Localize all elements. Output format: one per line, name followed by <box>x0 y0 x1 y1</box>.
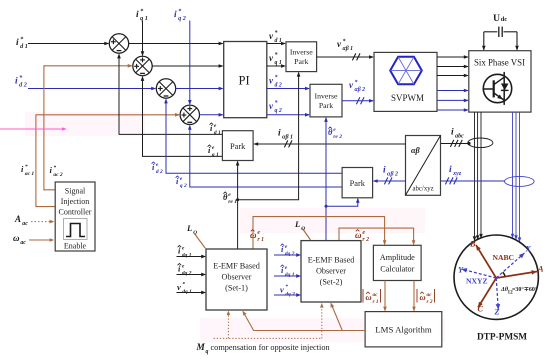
wire SVPWM to VSI phase z <box>437 109 468 111</box>
wire v*q1 PI to InversePark1 <box>267 65 285 67</box>
svg-text:Injection: Injection <box>61 197 89 206</box>
svg-text:Enable: Enable <box>64 241 87 250</box>
svg-text:U: U <box>493 13 500 24</box>
svg-text:Z: Z <box>494 308 500 317</box>
svg-text:Park: Park <box>319 101 333 110</box>
wire amplitude2 to LMS <box>413 281 415 311</box>
wire i*q1 down to S2 <box>142 21 144 56</box>
svg-text:q 2: q 2 <box>178 15 186 22</box>
wire amplitude1 to LMS <box>384 281 386 311</box>
block SVPWM <box>374 52 437 111</box>
wire Udc+ to VSI <box>483 32 485 50</box>
block Park 2 <box>342 168 373 198</box>
svg-text:Inverse: Inverse <box>290 47 313 56</box>
svg-text:i: i <box>16 38 19 48</box>
block Amplitude Calculator <box>373 245 421 280</box>
svg-text:*: * <box>343 38 346 45</box>
svg-text:i: i <box>451 128 454 138</box>
svg-text:d 1: d 1 <box>275 38 282 44</box>
svg-text:L: L <box>186 223 192 233</box>
svg-text:Park: Park <box>230 142 246 151</box>
svg-text:E-EMF Based: E-EMF Based <box>308 256 355 265</box>
label abs omega_ac_r1 <box>362 289 364 303</box>
svg-text:v: v <box>177 282 181 292</box>
wire theta_re1 to Park1 and InversePark1 <box>237 162 239 250</box>
svg-text:M: M <box>196 343 206 353</box>
phase A axis <box>496 272 537 279</box>
svg-text:Amplitude: Amplitude <box>380 253 415 262</box>
wire v*d2 PI to InversePark2 <box>267 88 309 90</box>
block Inverse Park 2 <box>310 84 342 117</box>
wire SVPWM to VSI phase y <box>437 99 468 101</box>
svg-text:q 1: q 1 <box>212 152 219 158</box>
svg-text:E-EMF Based: E-EMF Based <box>213 262 260 271</box>
svg-text:Park: Park <box>350 179 366 188</box>
svg-text:re 1: re 1 <box>228 199 237 205</box>
svg-text:Calculator: Calculator <box>380 265 414 274</box>
DTP-PMSM stator circle <box>454 235 538 319</box>
block E-EMF Based Observer Set-2 <box>301 241 361 302</box>
wire i*ac2 injection to S4 <box>36 115 179 207</box>
svg-text:*: * <box>275 100 278 107</box>
wire v*d1 PI to InversePark1 <box>267 43 285 45</box>
IGBT symbol Q1 inside VSI <box>483 74 511 102</box>
stray magenta wire <box>0 128 66 130</box>
wire SVPWM to VSI phase c <box>437 75 468 77</box>
bus i_xyz three-phase lines <box>512 112 514 237</box>
svg-text:ac: ac <box>373 292 379 298</box>
svg-text:*: * <box>275 52 278 59</box>
observer2 input v_dq2 <box>274 294 300 296</box>
svg-text:Six Phase VSI: Six Phase VSI <box>474 57 525 67</box>
wire i_xyz measurement to ab transform <box>441 180 505 182</box>
wire omega_ac to controller <box>29 239 53 241</box>
observer1 input v_dq1 <box>177 292 206 294</box>
svg-text:dq 1: dq 1 <box>182 253 192 259</box>
DC-link capacitor <box>484 31 498 33</box>
svg-text:PI: PI <box>239 74 250 88</box>
wire theta_re2 to InversePark2 and Park2 <box>325 118 327 241</box>
svg-text:Park: Park <box>294 57 308 66</box>
svg-text:L: L <box>294 219 300 229</box>
svg-text:DTP-PMSM: DTP-PMSM <box>477 333 527 343</box>
square wave icon <box>64 219 88 240</box>
svg-text:Signal: Signal <box>65 187 86 196</box>
wire feedback i^e_q1 from Park1 to S2 <box>143 77 223 156</box>
wire LMS feedback to observers <box>243 312 365 331</box>
observer2 input i_dq1 <box>274 275 300 277</box>
wire i*ac1 injection to S2 <box>44 66 132 190</box>
wire i*d1 to S1 <box>28 43 108 45</box>
svg-text:r 1: r 1 <box>373 299 379 305</box>
wire S1 to PI input 1 <box>129 43 223 45</box>
svg-text:q 2: q 2 <box>275 108 282 114</box>
wire SVPWM to VSI phase x <box>437 90 468 92</box>
block Signal Injection Controller <box>55 182 95 251</box>
summing junction S2 (i*q1) <box>133 56 152 75</box>
svg-text:αβ: αβ <box>411 146 421 155</box>
svg-text:Controller: Controller <box>59 208 92 217</box>
svg-text:B: B <box>469 240 476 249</box>
svg-text:ω: ω <box>13 233 20 243</box>
svg-text:r 2: r 2 <box>362 237 369 243</box>
observer2 input i_dq2 <box>274 254 300 256</box>
svg-text:abc/xyz: abc/xyz <box>413 186 434 193</box>
block Inverse Park 1 <box>286 42 317 72</box>
svg-text:i: i <box>174 10 177 20</box>
svg-text:d 2: d 2 <box>156 169 163 175</box>
svg-text:NXYZ: NXYZ <box>466 277 488 286</box>
svg-text:ac: ac <box>22 221 28 227</box>
wire feedback i^e_d1 from Park1 to S1 <box>119 54 222 134</box>
svg-text:αβ 1: αβ 1 <box>282 135 293 141</box>
wire i*q2 down to S4 <box>189 21 191 105</box>
svg-text:d 2: d 2 <box>275 83 282 89</box>
svg-text:d 1: d 1 <box>20 43 28 50</box>
wire i_abc measurement to ab transform <box>441 143 468 145</box>
svg-text:e: e <box>362 230 365 236</box>
observer1 input i_dq1 <box>177 256 206 258</box>
svg-text:xyz: xyz <box>452 171 462 177</box>
svg-text:d 1: d 1 <box>214 130 221 136</box>
wire v*ab1 InversePark1 to SVPWM <box>317 56 373 58</box>
wire feedback i^e_d2 from Park2 to S3 <box>166 99 342 173</box>
svg-text:dq 1: dq 1 <box>285 272 295 278</box>
svg-text:re 2: re 2 <box>333 134 342 140</box>
wire v*q2 PI to InversePark2 <box>267 114 309 116</box>
wire Udc- to VSI <box>516 32 518 50</box>
svg-text:i: i <box>15 77 18 87</box>
svg-text:*: * <box>275 74 278 81</box>
svg-text:dq 1: dq 1 <box>182 289 192 295</box>
wire feedback i^e_q2 from Park2 to S4 <box>190 126 342 187</box>
svg-text:Observer: Observer <box>221 273 251 282</box>
svg-text:A: A <box>537 265 544 274</box>
phase X axis <box>496 253 524 278</box>
svg-text:X: X <box>525 245 532 254</box>
svg-text:SVPWM: SVPWM <box>391 93 424 103</box>
svg-text:αβ 1: αβ 1 <box>343 46 354 52</box>
wire A_ac dotted to controller <box>31 221 53 223</box>
svg-text:i: i <box>383 166 386 176</box>
phase Z axis <box>496 278 498 310</box>
current sensor ellipse on abc bus <box>468 138 493 148</box>
wire i_ab1 transform to Park1 <box>254 143 405 145</box>
block Six Phase VSI <box>469 51 531 112</box>
svg-text:αβ 2: αβ 2 <box>355 87 366 93</box>
svg-text:LMS Algorithm: LMS Algorithm <box>375 325 432 335</box>
svg-text:*: * <box>285 283 288 290</box>
svg-text:q 1: q 1 <box>275 60 282 66</box>
svg-text:v: v <box>280 284 284 294</box>
svg-text:dq 2: dq 2 <box>182 271 192 277</box>
svg-text:abc: abc <box>455 134 464 140</box>
svg-text:compensation for opposite inje: compensation for opposite injection <box>211 343 331 352</box>
svg-text:(Set-1): (Set-1) <box>225 284 248 293</box>
wire v*ab2 InversePark2 to SVPWM <box>342 100 373 102</box>
wire i_ab2 transform to Park2 <box>374 180 406 182</box>
svg-text:C: C <box>478 305 484 314</box>
svg-text:ac 2: ac 2 <box>53 172 63 178</box>
svg-text:*: * <box>53 164 56 171</box>
svg-text:r 2: r 2 <box>427 299 433 305</box>
svg-text:NABC: NABC <box>493 253 515 262</box>
bus i_abc three-phase lines <box>474 112 476 240</box>
wire S2 to PI input 2 <box>152 65 222 67</box>
block abc/xyz to alpha-beta transform <box>406 136 441 196</box>
block E-EMF Based Observer Set-1 <box>206 249 267 310</box>
svg-text:*: * <box>275 30 278 37</box>
svg-text:αβ 2: αβ 2 <box>387 172 398 178</box>
block Park 1 <box>222 131 253 161</box>
summing junction S1 (i*d1) <box>109 34 128 53</box>
svg-text:i: i <box>449 165 452 175</box>
svg-text:*: * <box>25 163 28 170</box>
angle arc between A and X <box>503 272 505 276</box>
svg-text:dq 2: dq 2 <box>285 251 295 257</box>
svg-text:q 2: q 2 <box>180 183 187 189</box>
svg-text:ac: ac <box>20 240 26 246</box>
label abs omega_ac_r2 <box>416 289 418 303</box>
wire S4 to PI input 4 <box>200 114 223 116</box>
current sensor ellipse on xyz bus <box>505 176 535 186</box>
wire omega_r2 observer2 to Amplitude Calculator <box>339 228 414 244</box>
svg-text:(Set-2): (Set-2) <box>320 278 343 287</box>
svg-text:e: e <box>257 230 260 236</box>
observer1 input i_dq2 <box>177 274 206 276</box>
svg-text:i: i <box>278 128 281 138</box>
wire SVPWM to VSI phase b <box>437 66 468 68</box>
freewheel diode inside VSI <box>501 84 509 91</box>
block PI controller <box>224 42 267 118</box>
svg-text:q: q <box>206 349 209 355</box>
svg-text:d 2: d 2 <box>19 82 27 89</box>
wire S3 to PI input 3 <box>176 88 223 90</box>
svg-text:ac 1: ac 1 <box>25 171 35 177</box>
decorative wash (skip) <box>25 112 535 342</box>
svg-text:r 1: r 1 <box>257 237 264 243</box>
svg-text:Observer: Observer <box>316 267 346 276</box>
svg-text:i: i <box>136 10 139 20</box>
svg-text:*: * <box>182 281 185 288</box>
SVPWM hexagon icon <box>390 57 422 84</box>
block LMS Algorithm <box>365 312 442 347</box>
svg-text:q 1: q 1 <box>140 15 148 22</box>
svg-text:Inverse: Inverse <box>315 91 338 100</box>
summing junction S4 (i*q2) <box>180 105 199 124</box>
svg-text:*: * <box>355 79 358 86</box>
phase C axis <box>478 278 496 308</box>
phase Y axis <box>462 269 497 278</box>
svg-text:ac: ac <box>427 292 433 298</box>
svg-text:A: A <box>14 214 21 224</box>
phase B axis <box>476 245 496 278</box>
svg-text:dq 2: dq 2 <box>285 292 295 298</box>
wire i*d2 to S3 <box>28 88 155 90</box>
svg-text:=30°∓60°: =30°∓60° <box>512 286 538 293</box>
svg-text:dc: dc <box>501 16 508 23</box>
Mq compensation dotted wire <box>214 337 322 339</box>
summing junction S3 (i*d2) <box>156 79 175 98</box>
wire SVPWM to VSI phase a <box>437 56 468 58</box>
wire omega_r1 observer1 to Amplitude Calculator <box>253 217 385 249</box>
